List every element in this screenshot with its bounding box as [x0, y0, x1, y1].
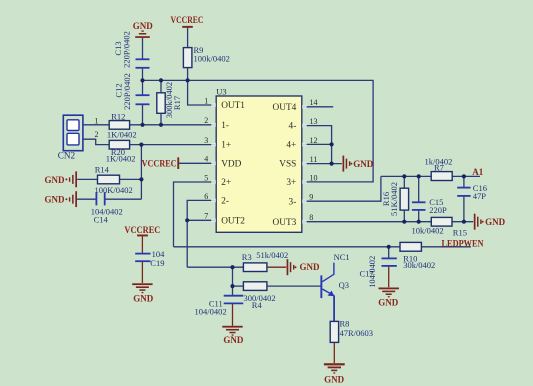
svg-text:2-: 2-: [221, 197, 229, 207]
svg-text:GND: GND: [45, 175, 66, 185]
svg-text:5: 5: [204, 173, 208, 182]
svg-text:OUT1: OUT1: [221, 101, 245, 111]
svg-text:4-: 4-: [289, 122, 297, 132]
svg-text:GND: GND: [45, 195, 66, 205]
svg-text:Q3: Q3: [339, 280, 349, 290]
svg-text:7: 7: [204, 212, 208, 221]
svg-text:10k/0402: 10k/0402: [412, 225, 444, 235]
svg-text:C14: C14: [94, 215, 109, 225]
svg-text:R3: R3: [242, 252, 252, 262]
svg-text:GND: GND: [378, 298, 399, 308]
svg-text:104/0402: 104/0402: [367, 256, 377, 288]
svg-text:14: 14: [310, 98, 318, 107]
svg-text:3: 3: [204, 136, 208, 145]
svg-text:C19: C19: [150, 258, 164, 268]
svg-text:51k/0402: 51k/0402: [256, 250, 288, 260]
svg-text:100K/0402: 100K/0402: [95, 185, 133, 195]
svg-text:GND: GND: [324, 374, 345, 384]
svg-text:4: 4: [204, 155, 208, 164]
svg-text:VCCREC: VCCREC: [142, 158, 177, 168]
svg-text:3+: 3+: [286, 178, 296, 188]
svg-text:6: 6: [204, 192, 208, 201]
svg-text:GND: GND: [300, 262, 321, 272]
svg-text:1: 1: [95, 116, 99, 125]
svg-text:R15: R15: [453, 227, 467, 237]
svg-text:12: 12: [310, 136, 318, 145]
svg-text:GND: GND: [485, 217, 506, 227]
svg-text:104/0402: 104/0402: [195, 307, 227, 317]
svg-text:2: 2: [204, 116, 208, 125]
svg-text:R4: R4: [252, 300, 263, 310]
svg-text:8: 8: [309, 213, 313, 222]
svg-text:9: 9: [309, 193, 313, 202]
svg-text:R14: R14: [95, 164, 110, 174]
svg-text:U3: U3: [216, 87, 226, 97]
svg-text:R8: R8: [340, 318, 350, 328]
svg-text:1+: 1+: [221, 141, 231, 151]
svg-text:GND: GND: [353, 159, 374, 169]
svg-text:3-: 3-: [289, 197, 297, 207]
svg-text:10: 10: [310, 173, 318, 182]
svg-text:OUT4: OUT4: [273, 103, 297, 113]
svg-text:OUT3: OUT3: [273, 218, 297, 228]
svg-text:2+: 2+: [221, 178, 231, 188]
svg-text:GND: GND: [133, 21, 154, 31]
svg-text:1-: 1-: [221, 121, 229, 131]
svg-text:VDD: VDD: [221, 159, 241, 169]
svg-text:1K/0402: 1K/0402: [106, 154, 136, 164]
svg-text:CN2: CN2: [58, 151, 76, 161]
svg-text:220P/0402: 220P/0402: [121, 31, 131, 68]
svg-text:13: 13: [310, 117, 318, 126]
svg-text:2: 2: [95, 130, 99, 139]
svg-text:4+: 4+: [286, 141, 296, 151]
svg-text:NC1: NC1: [334, 252, 350, 262]
svg-text:OUT2: OUT2: [221, 216, 245, 226]
svg-text:47P: 47P: [473, 191, 487, 201]
svg-text:11: 11: [310, 155, 318, 164]
svg-text:VSS: VSS: [279, 160, 296, 170]
svg-text:R17: R17: [172, 96, 182, 110]
svg-text:R7: R7: [434, 163, 444, 173]
svg-text:1: 1: [204, 96, 208, 105]
svg-text:GND: GND: [133, 294, 154, 304]
svg-text:1K/0402: 1K/0402: [107, 130, 137, 140]
svg-text:A1: A1: [472, 167, 483, 177]
svg-text:GND: GND: [223, 335, 244, 345]
svg-text:220P: 220P: [429, 205, 447, 215]
svg-text:51K/0402: 51K/0402: [389, 182, 399, 216]
svg-text:100k/0402: 100k/0402: [194, 53, 230, 63]
svg-text:220P/0402: 220P/0402: [122, 73, 132, 110]
svg-text:LEDPWEN: LEDPWEN: [442, 238, 484, 248]
svg-text:VCCREC: VCCREC: [124, 225, 160, 235]
svg-text:VCCREC: VCCREC: [171, 15, 204, 25]
svg-text:R12: R12: [111, 111, 125, 121]
svg-text:47R/0603: 47R/0603: [340, 328, 374, 338]
svg-text:30k/0402: 30k/0402: [403, 260, 435, 270]
